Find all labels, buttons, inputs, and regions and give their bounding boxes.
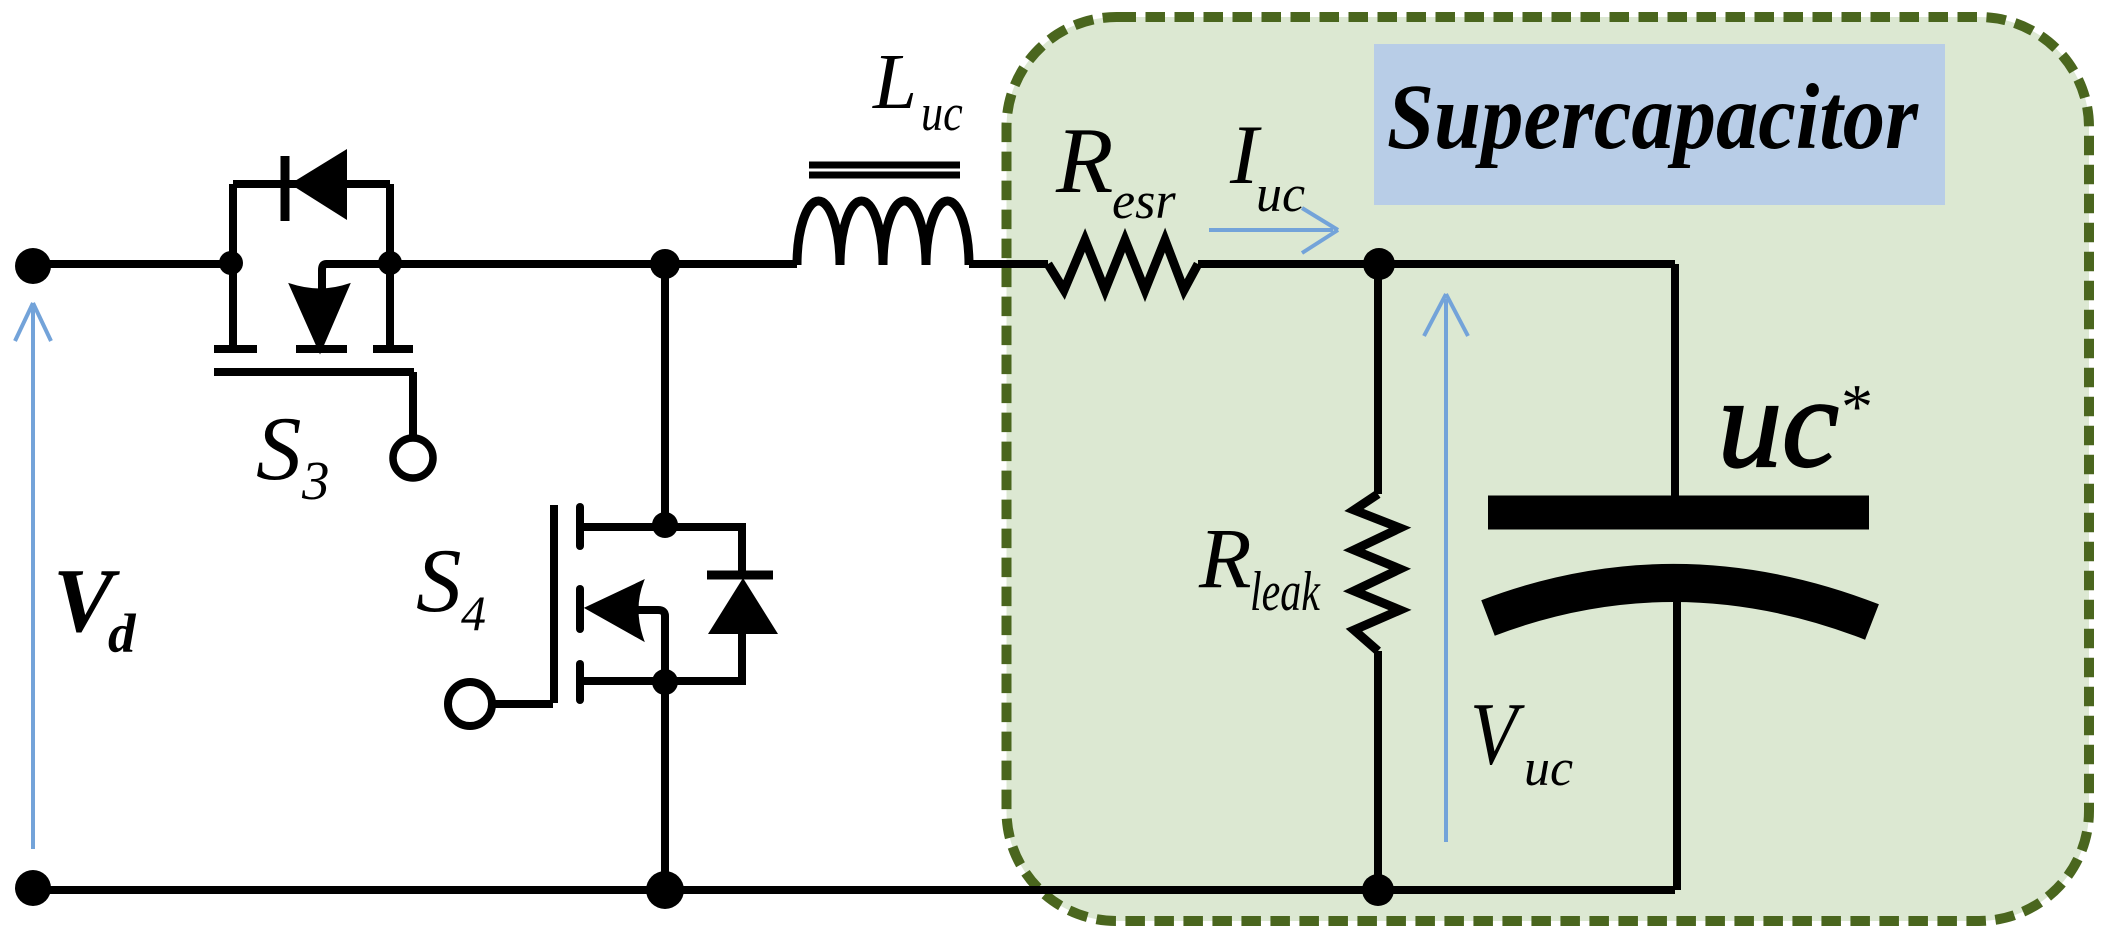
- S3 source stub: [386, 264, 394, 347]
- svg-text:3: 3: [301, 450, 330, 511]
- D3 cathode bar: [281, 156, 290, 221]
- wire resistor to cap branch: [1198, 260, 1675, 268]
- transistor S3: [214, 264, 433, 478]
- svg-text:L: L: [872, 39, 917, 126]
- supercapacitor model box: [1007, 17, 2090, 921]
- D3 left leg: [229, 184, 237, 268]
- S3 gate terminal circle: [393, 438, 433, 478]
- S4 body arrow wire: [638, 610, 665, 681]
- node S4 bottom: [646, 871, 684, 909]
- S4 bottom contact bar: [576, 664, 584, 700]
- S3 middle contact bar: [296, 345, 347, 353]
- transistor S4: [448, 505, 746, 726]
- S3 right contact bar: [373, 345, 413, 353]
- capacitor UC top plate: [1488, 496, 1869, 530]
- S3 body arrow head: [290, 285, 349, 353]
- svg-text:4: 4: [461, 585, 486, 641]
- resistor Rleak bottom lead: [1374, 651, 1382, 890]
- D4 cathode bar: [707, 571, 773, 580]
- capacitor UC bottom plate: [1488, 583, 1872, 622]
- node A top: [650, 249, 680, 279]
- wire S4 to bottom bus: [661, 682, 669, 890]
- svg-text:S: S: [256, 398, 302, 499]
- svg-text:Supercapacitor: Supercapacitor: [1387, 66, 1919, 169]
- D3 top wire: [233, 180, 390, 188]
- S4 body arrow head: [586, 581, 643, 640]
- svg-text:uc: uc: [921, 85, 963, 142]
- capacitor UC bottom lead: [1673, 600, 1681, 890]
- S4 gate bar: [550, 505, 558, 703]
- resistor Rleak top lead: [1374, 264, 1382, 494]
- Supercapacitor label background: [1374, 44, 1945, 205]
- D4 bottom leg: [738, 634, 746, 681]
- svg-text:V: V: [1470, 686, 1525, 784]
- node Rleak top: [1363, 248, 1395, 280]
- S4 middle contact bar: [576, 589, 584, 629]
- node S4 drain: [652, 512, 678, 538]
- D3 right leg: [386, 184, 394, 268]
- current arrow Iuc: [1209, 208, 1338, 253]
- inductor Luc core bars: [809, 162, 960, 169]
- wire top middle: [390, 260, 797, 268]
- svg-text:S: S: [416, 530, 462, 631]
- S4 top contact bar: [576, 507, 584, 546]
- svg-text:R: R: [1055, 109, 1113, 213]
- voltage arrow Vuc: [1424, 294, 1468, 842]
- S4 drain stub: [582, 523, 746, 531]
- terminal node top left: [15, 248, 51, 284]
- S4 source stub: [582, 677, 746, 685]
- D4 top wire: [738, 527, 746, 578]
- S4 gate terminal circle: [448, 682, 492, 726]
- resistor Resr: [1048, 240, 1198, 290]
- S3 body arrow wire: [322, 264, 390, 291]
- capacitor UC top lead: [1671, 264, 1679, 497]
- wire top left: [33, 260, 231, 268]
- svg-text:uc: uc: [1524, 740, 1573, 797]
- diode D3: [233, 149, 390, 268]
- node Rleak bottom: [1362, 874, 1394, 906]
- svg-text:d: d: [108, 603, 137, 664]
- S3 left contact bar: [214, 345, 257, 353]
- S3 drain stub: [229, 264, 237, 347]
- wire inductor to resistor: [969, 260, 1048, 268]
- S3 gate lead: [409, 372, 417, 435]
- svg-text:uc: uc: [1256, 166, 1305, 223]
- node S3 source: [378, 251, 402, 275]
- S4 gate lead: [495, 700, 553, 708]
- node S4 source: [652, 669, 678, 695]
- node S3 drain: [219, 251, 243, 275]
- diode D4: [707, 527, 778, 681]
- svg-text:esr: esr: [1112, 173, 1176, 230]
- D3 triangle: [290, 149, 347, 220]
- svg-text:*: *: [1838, 371, 1870, 442]
- inductor Luc coil: [797, 201, 969, 265]
- svg-text:leak: leak: [1250, 560, 1321, 622]
- resistor Rleak: [1354, 494, 1400, 651]
- terminal node bottom left: [15, 870, 51, 906]
- wire node A to S4: [661, 264, 669, 525]
- voltage arrow Vd: [15, 303, 51, 849]
- svg-text:R: R: [1198, 510, 1252, 606]
- svg-text:uc: uc: [1718, 352, 1839, 494]
- bottom bus wire: [33, 886, 1675, 894]
- D4 triangle: [708, 578, 778, 634]
- S3 gate bar: [214, 368, 414, 376]
